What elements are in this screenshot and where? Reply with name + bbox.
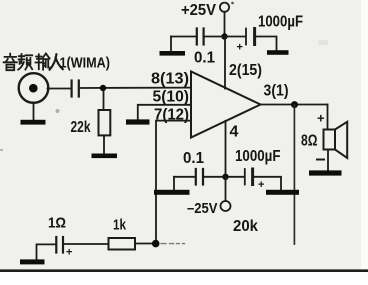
label input CJK 音频输入 drawn as paths	[4, 54, 63, 71]
node bottom rail junction	[222, 174, 228, 180]
wire bottom right to ground	[254, 177, 281, 190]
wire pin 4 vertical	[225, 121, 227, 177]
ground (top left)	[160, 51, 186, 56]
capacitor C feedback electrolytic	[56, 237, 72, 259]
label 0.1 (top)	[194, 50, 215, 67]
svg-text:0.1: 0.1	[194, 50, 215, 67]
label 1 ohm	[48, 215, 66, 232]
capacitor 0.1 (bottom)	[196, 169, 203, 185]
node top rail junction	[221, 33, 227, 39]
label 20k	[233, 218, 258, 235]
bottom scan edge line	[0, 269, 368, 272]
label 22k	[71, 119, 91, 136]
connector RCA input	[19, 73, 49, 103]
ground (22k)	[92, 154, 118, 159]
wire faint feedback dashes	[161, 243, 185, 245]
speaker LS1	[324, 122, 348, 158]
wire between top caps	[205, 36, 246, 38]
terminal -25V circle	[221, 201, 231, 211]
ground (bottom right)	[266, 190, 299, 195]
wire top rail left segment	[171, 36, 196, 38]
label pin 3(1)	[264, 83, 289, 100]
svg-text:20k: 20k	[233, 218, 258, 235]
svg-text:+: +	[66, 247, 72, 259]
label -25V	[187, 200, 218, 217]
label 1000uF (top)	[258, 14, 303, 31]
ground (bottom far left)	[20, 259, 45, 264]
wire between bottom caps	[204, 176, 244, 178]
svg-text:+: +	[258, 179, 264, 191]
svg-text:1(WIMA): 1(WIMA)	[60, 55, 111, 72]
wire pin 2 vertical	[224, 37, 226, 89]
wire cap to 1k	[64, 243, 109, 245]
label speaker +	[317, 111, 325, 126]
label 1(WIMA)	[60, 55, 111, 72]
label pin 8(13)	[151, 71, 189, 88]
wire junction to -25V terminal	[225, 177, 227, 201]
node output junction	[291, 101, 298, 108]
svg-text:5(10): 5(10)	[153, 89, 190, 106]
label +25V	[181, 2, 216, 19]
label pin 5(10)	[153, 89, 190, 106]
wire connector to input cap	[48, 88, 71, 90]
label 1000uF (bottom)	[235, 148, 281, 165]
svg-text:+: +	[317, 111, 325, 126]
capacitor 1000uF (bottom)	[245, 169, 265, 191]
wire output down to speaker	[327, 105, 329, 130]
resistor 1k	[109, 238, 136, 250]
node feedback junction	[152, 240, 160, 248]
svg-text:1000µF: 1000µF	[235, 148, 281, 165]
svg-text:22k: 22k	[71, 119, 91, 136]
terminal +25V circle	[220, 3, 229, 12]
svg-text:–25V: –25V	[187, 200, 218, 217]
wire ground up to cap	[37, 244, 56, 258]
ground (top right)	[267, 50, 289, 55]
wire 1k to feedback node	[135, 243, 152, 245]
svg-text:+: +	[237, 42, 243, 54]
ground (input connector)	[21, 120, 46, 125]
svg-text:0.1: 0.1	[183, 150, 204, 167]
wire pin 7 down to feedback node	[156, 121, 191, 244]
capacitor 1000uF (top)	[237, 29, 255, 54]
label speaker minus	[317, 159, 324, 161]
svg-text:1k: 1k	[113, 217, 127, 234]
op-amp U1 triangle	[191, 72, 261, 138]
wire connector to ground	[33, 103, 35, 121]
svg-text:+25V: +25V	[181, 2, 216, 19]
svg-text:1Ω: 1Ω	[48, 215, 66, 232]
wire speaker to ground	[327, 150, 329, 171]
ground (speaker)	[309, 170, 342, 175]
wire top right to ground	[256, 37, 277, 51]
wire output	[261, 104, 328, 106]
wire top left stub to ground	[170, 37, 172, 52]
svg-text:2(15): 2(15)	[229, 62, 262, 79]
label pin 2(15)	[229, 62, 262, 79]
svg-text:4: 4	[230, 124, 239, 141]
resistor 22k	[99, 91, 111, 154]
wire +25V terminal to top rail	[224, 12, 226, 37]
wire bottom rail left segment	[174, 176, 195, 178]
svg-text:8(13): 8(13)	[151, 71, 189, 88]
label pin 7(12)	[154, 106, 189, 123]
svg-text:3(1): 3(1)	[264, 83, 289, 100]
ground (bottom left)	[154, 190, 190, 195]
label 8 ohm	[301, 133, 318, 150]
wire input cap to pin 8	[80, 87, 191, 89]
label pin 4	[230, 124, 239, 141]
node input junction	[100, 85, 106, 91]
svg-text:1000µF: 1000µF	[258, 14, 303, 31]
wire pin 5 to ground	[138, 105, 191, 120]
label 1k	[113, 217, 127, 234]
capacitor 0.1 (top)	[197, 29, 204, 45]
wire bottom left stub to ground	[173, 177, 175, 190]
wire feedback vertical	[293, 105, 295, 244]
capacitor input coupling	[72, 81, 79, 97]
svg-text:8Ω: 8Ω	[301, 133, 318, 150]
scan speck artifacts	[56, 109, 60, 113]
label 0.1 (bottom)	[183, 150, 204, 167]
ground (pin 5)	[126, 119, 150, 124]
